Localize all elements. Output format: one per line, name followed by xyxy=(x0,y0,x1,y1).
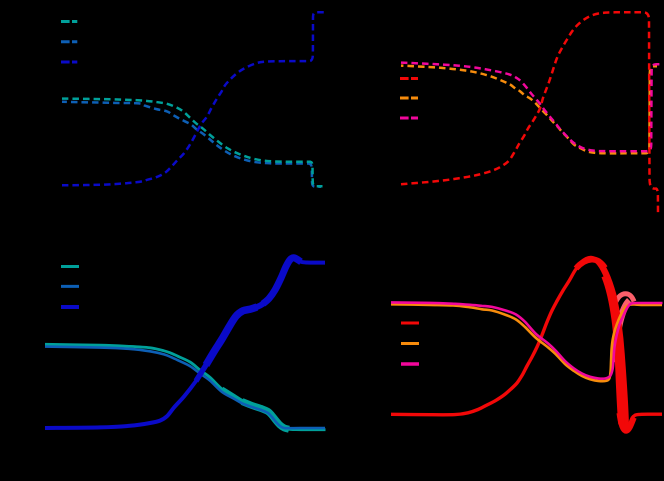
curve BL teal solid xyxy=(45,344,326,429)
band BR salmon puff above magenta flat xyxy=(615,294,634,304)
curve TR red dashed xyxy=(401,12,658,214)
band BL teal ensemble drop xyxy=(222,389,289,429)
band BL teal ensemble drop core xyxy=(242,402,289,430)
legend TL teal dashed handle xyxy=(61,20,77,23)
band BR red ensemble trough xyxy=(620,413,634,431)
legend TR orange dashed handle xyxy=(400,97,418,100)
band BL dark-blue ensemble crest xyxy=(263,258,301,304)
legend BR magenta solid handle xyxy=(401,362,419,366)
bottom-left subplot: solid curves xyxy=(45,258,326,430)
curve TR orange dashed xyxy=(401,66,657,154)
curve BL dark blue solid xyxy=(45,258,325,428)
curve BL medium blue solid xyxy=(45,347,325,429)
legend BL dark-blue solid handle xyxy=(61,305,79,309)
legend TL dark-blue dashed handle xyxy=(61,61,77,64)
curve BR magenta solid xyxy=(391,302,663,378)
legend BL teal solid handle xyxy=(61,265,79,268)
band BR red ensemble downstroke xyxy=(598,261,626,428)
legend BR red solid handle xyxy=(401,322,419,325)
curve TR magenta dashed xyxy=(401,63,663,152)
top-left subplot: dashed curves xyxy=(61,12,324,187)
band BL dark-blue ensemble rise xyxy=(196,350,215,381)
legend BL medium-blue solid handle xyxy=(61,285,79,288)
band BL dark-blue ensemble plateau xyxy=(243,290,275,311)
legend TR red dashed handle xyxy=(400,77,418,80)
curve TL teal dashed xyxy=(62,99,323,187)
legend TL medium-blue dashed handle xyxy=(61,40,77,43)
curve BR orange solid xyxy=(391,304,662,381)
legend BR orange solid handle xyxy=(401,342,419,345)
legend TR magenta dashed handle xyxy=(400,117,418,120)
band BR salmon halo at magenta trough and rise xyxy=(614,301,630,363)
band BR red ensemble downstroke left edge xyxy=(605,276,622,424)
bottom-right subplot: solid curves xyxy=(391,257,663,430)
curve BR red solid xyxy=(391,257,662,430)
band BL dark-blue ensemble steep rise xyxy=(206,307,257,365)
top-right subplot: dashed curves xyxy=(400,12,663,214)
band BR red ensemble crest xyxy=(576,259,605,268)
curve TL dark blue dashed xyxy=(62,12,324,185)
curve TL medium blue dashed xyxy=(62,102,321,187)
